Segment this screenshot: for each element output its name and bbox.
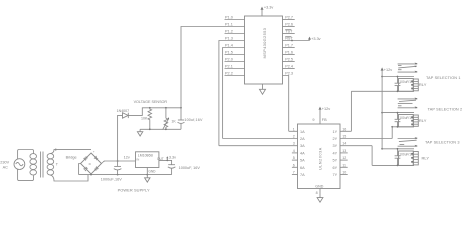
svg-text:POWER SUPPLY: POWER SUPPLY — [118, 187, 150, 192]
svg-text:P2.6: P2.6 — [285, 23, 293, 27]
svg-text:TST: TST — [285, 30, 293, 34]
svg-text:ULN2003A: ULN2003A — [319, 147, 323, 170]
pin P1.2 — [225, 30, 245, 34]
pin 1 1A wire from P2.3 — [289, 127, 305, 134]
svg-text:VOLTAGE SENSOR: VOLTAGE SENSOR — [134, 100, 168, 104]
pin 10 7Y — [333, 171, 348, 178]
wire 1Y riser to relay1 — [350, 91, 352, 131]
pin P2.0 — [225, 58, 245, 62]
svg-text:6A: 6A — [300, 166, 305, 170]
svg-text:Bridge: Bridge — [66, 155, 77, 159]
svg-text:P2.7: P2.7 — [285, 16, 293, 20]
bridge diode D on lower-right edge — [94, 167, 98, 171]
node 3.3v tap — [166, 160, 168, 162]
svg-text:RLY: RLY — [422, 156, 430, 161]
pin 12 5Y — [333, 156, 348, 163]
svg-text:MSP430G2553: MSP430G2553 — [262, 27, 267, 58]
svg-text:4: 4 — [293, 149, 295, 153]
svg-text:12: 12 — [342, 156, 346, 160]
node bridge bottom — [90, 174, 92, 176]
svg-text:3A: 3A — [300, 144, 305, 148]
relay RLY2 coil — [399, 115, 427, 127]
pin 2 2A wire from P1.4 — [223, 135, 306, 142]
wire 3Y to relay3 — [371, 146, 373, 166]
bridge diode D on lower-left edge — [84, 167, 88, 171]
capacitor relay3 — [395, 148, 401, 166]
capacitor relay2 — [395, 112, 401, 128]
wire bridge right vertex to 12v rail — [102, 161, 136, 164]
wire DC- ground rail — [79, 174, 172, 176]
wire 2Y riser to relay2 — [391, 127, 393, 139]
wire 12v rail to diode D1 — [118, 115, 123, 161]
transistor-array U2 ULN2003A body — [298, 124, 341, 189]
wire R1 bottom — [149, 121, 151, 130]
pin 6 6A — [292, 163, 305, 170]
svg-text:16: 16 — [342, 127, 346, 131]
power +3.3v RST pullup — [308, 37, 321, 42]
transformer T secondary winding — [47, 154, 54, 175]
relay RLY2 contacts — [398, 98, 418, 109]
svg-text:P1.4: P1.4 — [225, 44, 233, 48]
svg-text:+12v: +12v — [322, 107, 330, 111]
svg-text:230V: 230V — [0, 161, 9, 165]
ground voltage sensor — [137, 129, 142, 136]
pin P2.4 — [283, 65, 295, 69]
capacitor C3 100uf 16V — [178, 108, 203, 130]
pin 16 1Y / wire to relay1 — [333, 127, 352, 134]
node regulator gnd — [146, 174, 148, 176]
op-amp U1 MSP430G2553 body — [245, 16, 283, 84]
power +12v relay bus — [381, 67, 393, 148]
pin 9 FB / power +12v — [312, 107, 330, 124]
svg-text:GND: GND — [148, 169, 156, 173]
pin P1.4 / wire to ULN 2A — [223, 44, 245, 139]
svg-text:15: 15 — [342, 135, 346, 139]
wire relay1 +12v rail — [382, 76, 414, 78]
pin 11 6Y — [333, 163, 348, 170]
diode D1 1N4007 — [117, 109, 130, 118]
svg-text:10: 10 — [342, 171, 346, 175]
wire secondary top lead to bridge — [50, 150, 91, 154]
svg-text:4A: 4A — [300, 151, 305, 155]
svg-text:5: 5 — [293, 156, 295, 160]
svg-text:100uF/16: 100uF/16 — [399, 80, 413, 84]
transformer core — [40, 152, 42, 178]
wire relay1 coil return rail — [351, 90, 414, 92]
svg-text:3.3v: 3.3v — [169, 156, 176, 160]
pin P1.0 — [225, 16, 245, 20]
svg-text:100uF/16: 100uF/16 — [399, 153, 413, 157]
svg-text:P1.3: P1.3 — [225, 37, 233, 41]
relay RLY3 coil — [399, 151, 430, 165]
svg-text:AC: AC — [3, 165, 9, 169]
pin 3 3A wire from P1.3 — [219, 142, 305, 149]
node R1 bottom — [149, 128, 151, 130]
svg-text:P2.3: P2.3 — [285, 72, 293, 76]
capacitor relay1 — [395, 76, 401, 93]
wire bridge left vertex to DC- rail — [79, 164, 81, 175]
svg-text:+3.3v: +3.3v — [264, 6, 273, 10]
svg-text:13: 13 — [342, 149, 346, 153]
pin 15 2Y / wire to relay2 — [333, 135, 393, 142]
pin P1.1 / wire to voltage sensor — [225, 23, 233, 27]
svg-text:IN: IN — [137, 157, 140, 161]
svg-text:P2.4: P2.4 — [285, 65, 293, 69]
ground MCU — [260, 84, 266, 94]
svg-text:TAP SELECTION 3: TAP SELECTION 3 — [425, 140, 460, 144]
node relay2 return — [391, 126, 393, 128]
wire regulator GND drop — [146, 168, 148, 175]
svg-text:GND: GND — [315, 184, 323, 188]
pin P2.5 — [283, 58, 295, 62]
capacitor C2 1000uF 16V — [168, 165, 201, 175]
svg-text:P2.5: P2.5 — [285, 58, 293, 62]
wire sensor output to P1.1 — [181, 27, 245, 108]
pin 14 3Y / wire to relay3 — [333, 142, 373, 149]
svg-text:P1.1: P1.1 — [225, 23, 233, 27]
pin 5 5A — [292, 156, 305, 163]
svg-text:+: + — [93, 149, 95, 153]
pin 7 7A — [292, 171, 305, 178]
node relay1 +12v — [381, 76, 383, 78]
pin P2.6 — [283, 23, 295, 27]
wire relay2 +12v rail — [382, 112, 414, 114]
svg-text:2Y: 2Y — [333, 137, 338, 141]
ground power supply — [145, 175, 150, 183]
node 12v at C1 — [117, 160, 119, 162]
node pot bottom — [165, 128, 167, 130]
AC source V1 230V AC — [0, 159, 25, 170]
svg-text:3Y: 3Y — [333, 144, 338, 148]
svg-text:14: 14 — [342, 142, 346, 146]
pin P2.7 — [283, 16, 295, 20]
svg-text:1000uF, 16V: 1000uF, 16V — [179, 166, 201, 170]
svg-text:P1.0: P1.0 — [225, 16, 233, 20]
node relay2 +12v — [381, 112, 383, 114]
svg-text:6: 6 — [293, 163, 295, 167]
svg-text:+3.3v: +3.3v — [311, 37, 320, 41]
svg-text:4Y: 4Y — [333, 151, 338, 155]
svg-text:12v: 12v — [124, 156, 130, 160]
svg-text:P2.2: P2.2 — [225, 72, 233, 76]
pin P1.7 — [283, 44, 295, 48]
svg-text:TAP SELECTION 2: TAP SELECTION 2 — [428, 107, 463, 111]
pin TST — [283, 30, 295, 34]
svg-text:P1.5: P1.5 — [225, 51, 233, 55]
svg-text:100uF/16: 100uF/16 — [399, 116, 413, 120]
pin P2.2 — [225, 72, 245, 76]
svg-text:T: T — [56, 162, 59, 166]
bridge rectifier diamond — [81, 153, 102, 174]
pin RST / wire to +3.3v — [283, 37, 310, 42]
svg-text:FB: FB — [322, 118, 327, 122]
svg-text:LM1086B: LM1086B — [138, 154, 154, 158]
svg-text:7A: 7A — [300, 173, 305, 177]
bridge diode D on upper-right edge — [94, 156, 98, 160]
wire secondary bottom lead — [50, 175, 88, 181]
svg-text:2A: 2A — [300, 137, 305, 141]
potentiometer R2 1K — [163, 108, 177, 130]
svg-text:1K: 1K — [171, 120, 176, 124]
svg-text:6Y: 6Y — [333, 166, 338, 170]
pin P1.5 — [225, 51, 245, 55]
svg-text:D: D — [89, 162, 92, 166]
pin P1.3 / wire to ULN 3A — [219, 37, 245, 146]
net label 3.3v flag — [166, 156, 176, 161]
wire diode to sensor top rail — [128, 108, 181, 116]
wire relay2 coil return rail — [392, 126, 414, 128]
svg-text:1A: 1A — [300, 130, 305, 134]
svg-text:100uf,16V: 100uf,16V — [184, 118, 203, 122]
svg-text:8: 8 — [316, 191, 318, 195]
svg-text:RLY: RLY — [419, 82, 427, 87]
wire relay3 +12v rail — [382, 148, 414, 150]
svg-text:1N4007: 1N4007 — [117, 109, 130, 113]
node sensor cap top — [180, 107, 182, 109]
node sensor pot top — [165, 107, 167, 109]
svg-text:9: 9 — [312, 118, 314, 122]
resistor R1 10K — [141, 108, 152, 121]
wire AC source loop — [18, 150, 34, 159]
svg-text:5A: 5A — [300, 159, 305, 163]
node relay3 +12v — [381, 148, 383, 150]
svg-text:7: 7 — [293, 171, 295, 175]
svg-text:P1.6: P1.6 — [285, 51, 293, 55]
relay RLY3 contacts — [398, 137, 418, 147]
wire relay3 coil return rail — [372, 164, 414, 166]
node sensor R top — [149, 107, 151, 109]
svg-text:P2.0: P2.0 — [225, 58, 233, 62]
node C1 bottom — [117, 174, 119, 176]
svg-text:1: 1 — [293, 127, 295, 131]
svg-text:P1.7: P1.7 — [285, 44, 293, 48]
bridge diode D on upper-left edge — [84, 156, 88, 160]
wire regulator output — [159, 160, 172, 164]
svg-text:P1.2: P1.2 — [225, 30, 233, 34]
pin 4 4A — [292, 149, 305, 156]
svg-text:1000uF ,16V: 1000uF ,16V — [101, 177, 122, 181]
svg-text:P2.1: P2.1 — [225, 65, 233, 69]
transformer T primary winding — [30, 154, 37, 175]
svg-text:2: 2 — [293, 135, 295, 139]
wire sensor bottom rail — [140, 128, 181, 130]
pin 13 4Y — [333, 149, 348, 156]
svg-text:TAP SELECTION 1: TAP SELECTION 1 — [426, 76, 461, 80]
regulator U3 LM1086B — [136, 152, 164, 168]
svg-text:7Y: 7Y — [333, 173, 338, 177]
svg-text:+12v: +12v — [384, 68, 392, 72]
svg-text:11: 11 — [342, 163, 346, 167]
capacitor C1 1000uF 16V — [101, 161, 122, 181]
pin 8 GND / ground — [315, 184, 323, 202]
svg-text:1Y: 1Y — [333, 130, 338, 134]
svg-text:10K: 10K — [141, 116, 148, 120]
svg-text:3: 3 — [293, 142, 295, 146]
svg-text:5Y: 5Y — [333, 159, 338, 163]
power +3.3v MCU — [261, 6, 274, 16]
relay RLY1 contacts — [398, 63, 418, 73]
pin P2.3 / wire to ULN 1A — [283, 72, 294, 132]
relay RLY1 coil — [399, 79, 427, 92]
svg-text:RLY: RLY — [419, 118, 427, 123]
pin P1.6 — [283, 51, 295, 55]
pin P2.1 — [225, 65, 245, 69]
